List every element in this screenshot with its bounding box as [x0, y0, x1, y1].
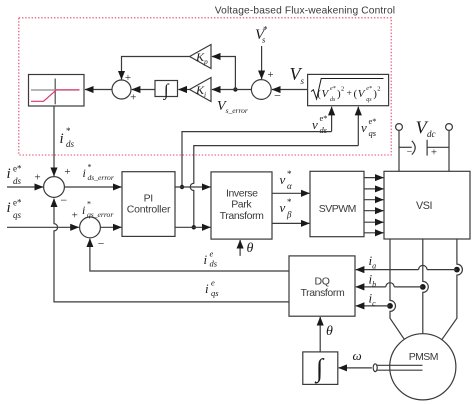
Inverse Park Transform block [211, 172, 272, 239]
svg-text:e*: e* [13, 197, 22, 207]
svg-text:α: α [287, 181, 292, 191]
wire: iqs_e feedback from DQ to S1 (hop over iqs* input) [54, 199, 289, 302]
svg-text:v: v [361, 120, 367, 135]
svg-text:ds: ds [210, 259, 218, 269]
node N2 junction dot [192, 225, 196, 229]
current sensor dot ib [420, 284, 426, 290]
svg-text:+: + [125, 72, 131, 84]
wire: vds_e* vertical into sqrt block [331, 107, 333, 132]
PI controller block [122, 172, 175, 237]
wire: Vs_error node up to Kp [212, 57, 236, 90]
svg-text:PI: PI [144, 193, 153, 205]
svg-text:Controller: Controller [127, 204, 171, 216]
dashed enclosure box (flux-weakening control) [19, 18, 391, 155]
svg-text:e*: e* [13, 163, 22, 173]
VSI block [384, 171, 470, 239]
gain Kp triangle [190, 45, 211, 69]
wire: Kp output to S3 top [122, 57, 190, 80]
phase wire a (right) from VSI with current sensor hop [442, 239, 463, 340]
wire: iqs_e* input into S4 [7, 226, 79, 228]
svg-text:ds: ds [66, 139, 75, 149]
svg-text:i: i [204, 252, 208, 267]
svg-text:v: v [312, 117, 318, 132]
svg-text:PMSM: PMSM [409, 351, 438, 363]
wire: limiter output down to S1 [53, 106, 55, 176]
motor shaft [376, 364, 423, 366]
node Vs_error junction dot [233, 87, 237, 91]
wire: Vs* down into S2 [261, 46, 263, 79]
svg-text:+: + [267, 69, 273, 81]
limiter saturation curve [31, 90, 80, 102]
svg-text:*: * [66, 126, 71, 136]
summing junction S3 (flux-weakening PI sum) [112, 80, 131, 99]
wire: Ki to integrator [178, 89, 189, 91]
wire: S2 output to Vs_error node [235, 89, 251, 91]
battery symbol [399, 146, 412, 148]
gate signal wires SVPWM to VSI (6 arrows) [364, 177, 383, 179]
wire: S1 output to PI controller [64, 186, 121, 188]
svg-text:+: + [130, 92, 136, 104]
wire: PI lower output to Inverse Park [175, 226, 210, 228]
svg-text:+: + [431, 147, 437, 159]
svg-text:+: + [34, 172, 40, 184]
current sensor dot ic [387, 303, 393, 309]
phase wire b (middle) from VSI with current sensor hop [423, 239, 429, 334]
Vdc terminal left [396, 124, 403, 131]
limiter horizontal axis [31, 89, 80, 91]
wire: ic measurement to DQ Transform [356, 305, 390, 307]
svg-text:−: − [60, 193, 67, 207]
wire: ids_e* input into S1 [7, 186, 43, 188]
wire: vds_e* tap from node N1 up and across [182, 132, 332, 187]
wire: v_alpha* to SVPWM [272, 192, 309, 194]
svg-text:−: − [407, 147, 413, 158]
integrator U2 (speed to angle) [303, 352, 338, 385]
svg-text:e*: e* [366, 86, 372, 92]
wire: omega from shaft to integrator [339, 367, 372, 369]
svg-text:+: + [64, 166, 70, 178]
wire: ia measurement to DQ Transform (hop over phase b) [356, 265, 457, 269]
svg-text:qs: qs [366, 97, 372, 103]
svg-text:−: − [98, 237, 105, 251]
summing junction S4 (q-axis current error) [80, 217, 101, 238]
svg-text:ds: ds [13, 176, 22, 186]
wire: theta from integrator to DQ Transform [319, 317, 321, 352]
wire: ids_e feedback from DQ to S4 [90, 239, 289, 271]
SVPWM block [310, 171, 364, 236]
svg-text:v: v [280, 200, 286, 215]
svg-text:i: i [82, 203, 85, 217]
svg-text:β: β [286, 210, 292, 220]
svg-text:e*: e* [330, 86, 336, 92]
gain Ki triangle [190, 78, 211, 102]
svg-text:SVPWM: SVPWM [319, 203, 356, 215]
wire: vqs_e* vertical into sqrt block [357, 107, 359, 146]
svg-text:ω: ω [353, 348, 362, 363]
svg-text:*: * [263, 25, 268, 35]
svg-text:i: i [205, 281, 209, 296]
wire: Vdc left lead to VSI [398, 130, 400, 171]
svg-text:*: * [287, 169, 292, 179]
svg-text:Transform: Transform [300, 287, 345, 299]
wire: Vs_error node to Ki [212, 89, 236, 91]
svg-text:qs: qs [211, 288, 219, 298]
node N1 junction dot [180, 185, 184, 189]
svg-text:qs: qs [13, 210, 22, 220]
shaft end cap [373, 364, 377, 372]
svg-text:ds_error: ds_error [88, 173, 114, 182]
svg-text:dc: dc [427, 129, 436, 139]
svg-text:i: i [60, 131, 64, 147]
svg-text:i: i [7, 200, 11, 216]
svg-text:*: * [88, 163, 92, 172]
wire: S4 output to PI controller [100, 226, 121, 228]
wire: PI upper output to Inverse Park [175, 186, 210, 188]
wire: integrator to S3 [132, 89, 155, 91]
svg-text:ds: ds [320, 125, 328, 135]
svg-text:*: * [87, 200, 91, 209]
svg-text:qs_error: qs_error [87, 210, 113, 219]
svg-text:θ: θ [247, 241, 254, 256]
svg-text:e*: e* [320, 113, 328, 123]
wire: S3 output to limiter [85, 89, 112, 91]
PMSM motor circle [390, 334, 456, 400]
svg-text:e: e [210, 249, 214, 259]
svg-text:θ: θ [326, 324, 333, 339]
svg-text:−: − [274, 89, 281, 103]
phase wire c (left) from VSI with current sensor hop [390, 239, 404, 339]
Vdc terminal right [446, 124, 453, 131]
svg-text:i: i [7, 166, 11, 182]
wire: theta stub into Inverse Park [239, 240, 241, 256]
svg-text:+: + [72, 210, 78, 222]
svg-text:VSI: VSI [416, 200, 432, 212]
limiter block (saturation) [29, 75, 85, 107]
svg-text:i: i [83, 166, 86, 180]
wire: ib measurement to DQ Transform (hop over phase c) [356, 283, 423, 287]
svg-text:ds: ds [330, 97, 336, 103]
svg-text:qs: qs [369, 128, 377, 138]
svg-text:2: 2 [341, 86, 344, 93]
svg-text:*: * [287, 197, 292, 207]
integrator U3 [155, 81, 178, 97]
wire: Vdc right lead to VSI [448, 130, 450, 171]
sqrt magnitude block [308, 74, 389, 105]
summing junction S1 (d-axis current error) [44, 177, 65, 198]
svg-text:e: e [211, 278, 215, 288]
wire: v_beta* to SVPWM [272, 222, 309, 224]
wire: vqs_e* tap from node N2 up and across (with hop over row1) [190, 146, 358, 228]
svg-text:v: v [280, 172, 286, 187]
svg-text:Voltage-based Flux-weakening C: Voltage-based Flux-weakening Control [215, 6, 395, 17]
DQ Transform block [289, 256, 355, 316]
limiter vertical axis [54, 79, 56, 105]
summing junction S2 (voltage error) [251, 80, 271, 100]
svg-text:2: 2 [377, 86, 380, 93]
svg-text:DQ: DQ [315, 275, 330, 287]
svg-text:+: + [347, 89, 352, 99]
svg-text:Transform: Transform [220, 210, 265, 222]
svg-text:e*: e* [369, 116, 377, 126]
svg-text:Park: Park [231, 199, 252, 211]
current sensor dot ia [454, 267, 460, 273]
wire: sqrt block to S2 [272, 89, 308, 91]
svg-text:Inverse: Inverse [226, 187, 258, 199]
